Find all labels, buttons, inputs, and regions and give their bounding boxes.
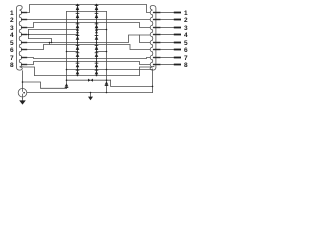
svg-text:6: 6: [184, 47, 188, 54]
left terminal block with sockets: [17, 6, 23, 71]
terminal 8 right ground branch: [140, 66, 155, 75]
svg-text:6: 6: [10, 47, 14, 54]
svg-text:4: 4: [10, 32, 14, 39]
svg-text:8: 8: [10, 62, 14, 69]
svg-text:7: 7: [184, 55, 188, 62]
earth link left: [23, 82, 67, 88]
wire row 4 (ends at rail A): [27, 34, 77, 36]
diodes on rail A: [76, 5, 80, 74]
centre earth arrow: [88, 97, 93, 101]
junction line pair 5/6 right: [97, 51, 107, 53]
junction line pair 1/2: [67, 11, 107, 13]
junction line pair 7/8: [67, 69, 153, 71]
svg-text:2: 2: [10, 17, 14, 24]
tap 3/4 left: [28, 30, 30, 39]
svg-text:7: 7: [10, 55, 14, 62]
wire row 3 raised: [27, 23, 150, 28]
left terminal numbers 1-8: [10, 10, 14, 69]
earth link mid: [67, 79, 111, 81]
junction line pair 3/4 right: [97, 29, 107, 31]
right terminal pins: [153, 13, 161, 65]
branch line left: [29, 39, 52, 43]
gas discharge tube: [18, 88, 27, 98]
left terminal pins: [21, 13, 27, 65]
svg-text:4: 4: [184, 32, 188, 39]
right arrow bars: [174, 13, 181, 65]
GDT earth arrow: [22, 99, 24, 101]
wire row 2: [27, 19, 150, 21]
diodes on rail B: [95, 5, 99, 74]
arrester centre electrode line: [27, 92, 153, 94]
svg-text:3: 3: [184, 25, 188, 32]
drop to terminal 5 right: [140, 35, 151, 43]
svg-text:5: 5: [184, 40, 188, 47]
junction dots: [22, 4, 154, 94]
earth link right: [111, 80, 153, 86]
suppressor bowtie: [88, 79, 93, 82]
left tap vertical: [66, 12, 68, 89]
wire row 5 (rises at x128.5 to feed terminal 4 right): [27, 35, 150, 43]
wire row 8 lowered mid: [27, 62, 150, 65]
bridge 5/6 left: [49, 43, 51, 45]
wire row 1 via top bus: [27, 5, 150, 13]
svg-text:1: 1: [184, 10, 188, 17]
svg-text:3: 3: [10, 25, 14, 32]
right lead-out wires: [161, 13, 174, 65]
svg-text:2: 2: [184, 17, 188, 24]
right terminal block with sockets: [150, 6, 156, 71]
centre earth stem: [90, 93, 92, 97]
junction line pair 3/4 left: [29, 29, 78, 31]
right tap vertical: [106, 12, 108, 93]
svg-text:1: 1: [10, 10, 14, 17]
wire row 7 lowered: [27, 58, 150, 59]
rail bottom bus: [35, 75, 140, 77]
junction line pair 5/6 left: [67, 51, 78, 53]
svg-text:8: 8: [184, 62, 188, 69]
diode left earth drop: [65, 83, 69, 88]
right block earth drop: [152, 69, 154, 93]
terminal 8 left ground branch: [21, 66, 35, 75]
left block earth drop: [22, 71, 24, 89]
svg-text:5: 5: [10, 40, 14, 47]
diode right earth drop: [105, 81, 109, 86]
protection rail B: [96, 5, 98, 76]
wire row 6 raised: [27, 45, 150, 50]
right terminal numbers 1-8: [184, 10, 188, 69]
protection rail A: [77, 5, 79, 76]
